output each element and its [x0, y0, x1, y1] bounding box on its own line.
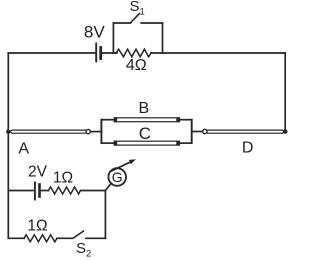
galvanometer G [108, 168, 126, 186]
resistance box C [114, 141, 179, 145]
switch S1 branch top left wire [113, 22, 130, 24]
lead D eye terminal [203, 129, 207, 133]
lead wire A (double-line) [9, 130, 85, 133]
left bracket vertical [100, 120, 102, 143]
battery 2V [35, 183, 40, 200]
battery 8V [96, 44, 101, 62]
wire left vertical [7, 53, 9, 238]
switch S2 blade [74, 231, 84, 238]
right bracket vertical [191, 120, 193, 143]
stub C box right to bracket [180, 142, 192, 144]
wire top left segment [8, 52, 95, 54]
svg-text:8V: 8V [84, 22, 105, 41]
box B right terminal cap [176, 117, 179, 122]
galvanometer needle [110, 161, 131, 171]
wire right vertical [284, 53, 286, 132]
svg-text:D: D [242, 139, 254, 156]
switch S1 branch left vertical wire [112, 23, 114, 53]
switch S1 branch top right wire [141, 22, 162, 24]
wire switch S2 to corner [86, 237, 105, 239]
svg-text:C: C [139, 124, 151, 143]
stub to B box left [101, 119, 114, 121]
svg-text:1Ω: 1Ω [53, 170, 73, 187]
lead wire D (double-line) [207, 130, 285, 133]
node A junction dot [6, 129, 10, 133]
svg-text:S1: S1 [130, 0, 145, 17]
box C right terminal cap [176, 141, 179, 146]
wire right vertical of lower loop [104, 191, 106, 239]
galvanometer needle arrowhead [129, 159, 136, 164]
node D junction dot [283, 129, 288, 134]
wire eye to left bracket [90, 131, 101, 133]
switch S1 blade [131, 14, 139, 23]
wire right bracket to eye [192, 131, 203, 133]
resistor 1ohm R3 [24, 235, 57, 242]
resistance box B [114, 118, 179, 122]
lead A eye terminal [86, 130, 90, 134]
resistor 4ohm R1 [116, 49, 151, 57]
wire 2V row from left vertical [9, 190, 34, 192]
svg-text:1Ω: 1Ω [27, 218, 47, 235]
svg-text:2V: 2V [28, 163, 48, 180]
switch S1 branch right vertical wire [162, 23, 164, 53]
svg-text:4Ω: 4Ω [126, 57, 147, 74]
wire battery to 1ohm resistor [41, 190, 49, 192]
wire top right segment [151, 52, 285, 54]
svg-text:G: G [112, 169, 123, 185]
wire 1ohm to corner junction [81, 190, 106, 192]
box C left terminal cap [114, 141, 117, 146]
wire 1ohm to switch S2 [57, 237, 73, 239]
resistor 1ohm R2 [49, 187, 81, 194]
box B left terminal cap [114, 117, 117, 122]
stub B box right to bracket [180, 119, 192, 121]
svg-text:B: B [138, 100, 149, 117]
wire battery to resistor [102, 52, 117, 54]
svg-text:A: A [18, 140, 29, 157]
stub to C box left [101, 142, 114, 144]
wire bottom left segment [8, 237, 24, 239]
wire corner to galvanometer [105, 183, 111, 190]
svg-text:S2: S2 [76, 240, 91, 259]
